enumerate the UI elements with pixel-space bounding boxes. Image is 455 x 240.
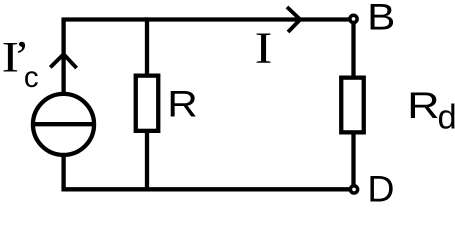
svg-text:R: R: [407, 84, 440, 126]
wire: R branch upper segment: [145, 17, 149, 76]
arrow of current source on left wire (pointing up): [50, 54, 76, 68]
node D terminal circle: [350, 186, 357, 193]
resistor Rd body: [341, 78, 364, 133]
wire: Rd branch lower segment to node D: [351, 133, 355, 188]
current source U1 chord line: [31, 122, 96, 126]
node B terminal circle: [350, 15, 357, 22]
wire: Rd branch upper segment from node B: [351, 21, 355, 78]
svg-text:d: d: [438, 99, 455, 137]
wire: R branch lower segment: [145, 131, 149, 190]
svg-text:R: R: [167, 82, 198, 124]
svg-text:D: D: [367, 168, 394, 207]
svg-text:c: c: [24, 61, 39, 94]
svg-text:I: I: [255, 24, 273, 73]
svg-text:B: B: [367, 0, 395, 38]
wire: below current source, bottom rail to node D: [64, 156, 350, 189]
arrow of current I on top wire (pointing right): [287, 7, 300, 32]
current source U1 circle: [33, 94, 94, 155]
resistor R body: [136, 76, 159, 131]
wire: left vertical riser and top horizontal rail: [64, 20, 351, 93]
